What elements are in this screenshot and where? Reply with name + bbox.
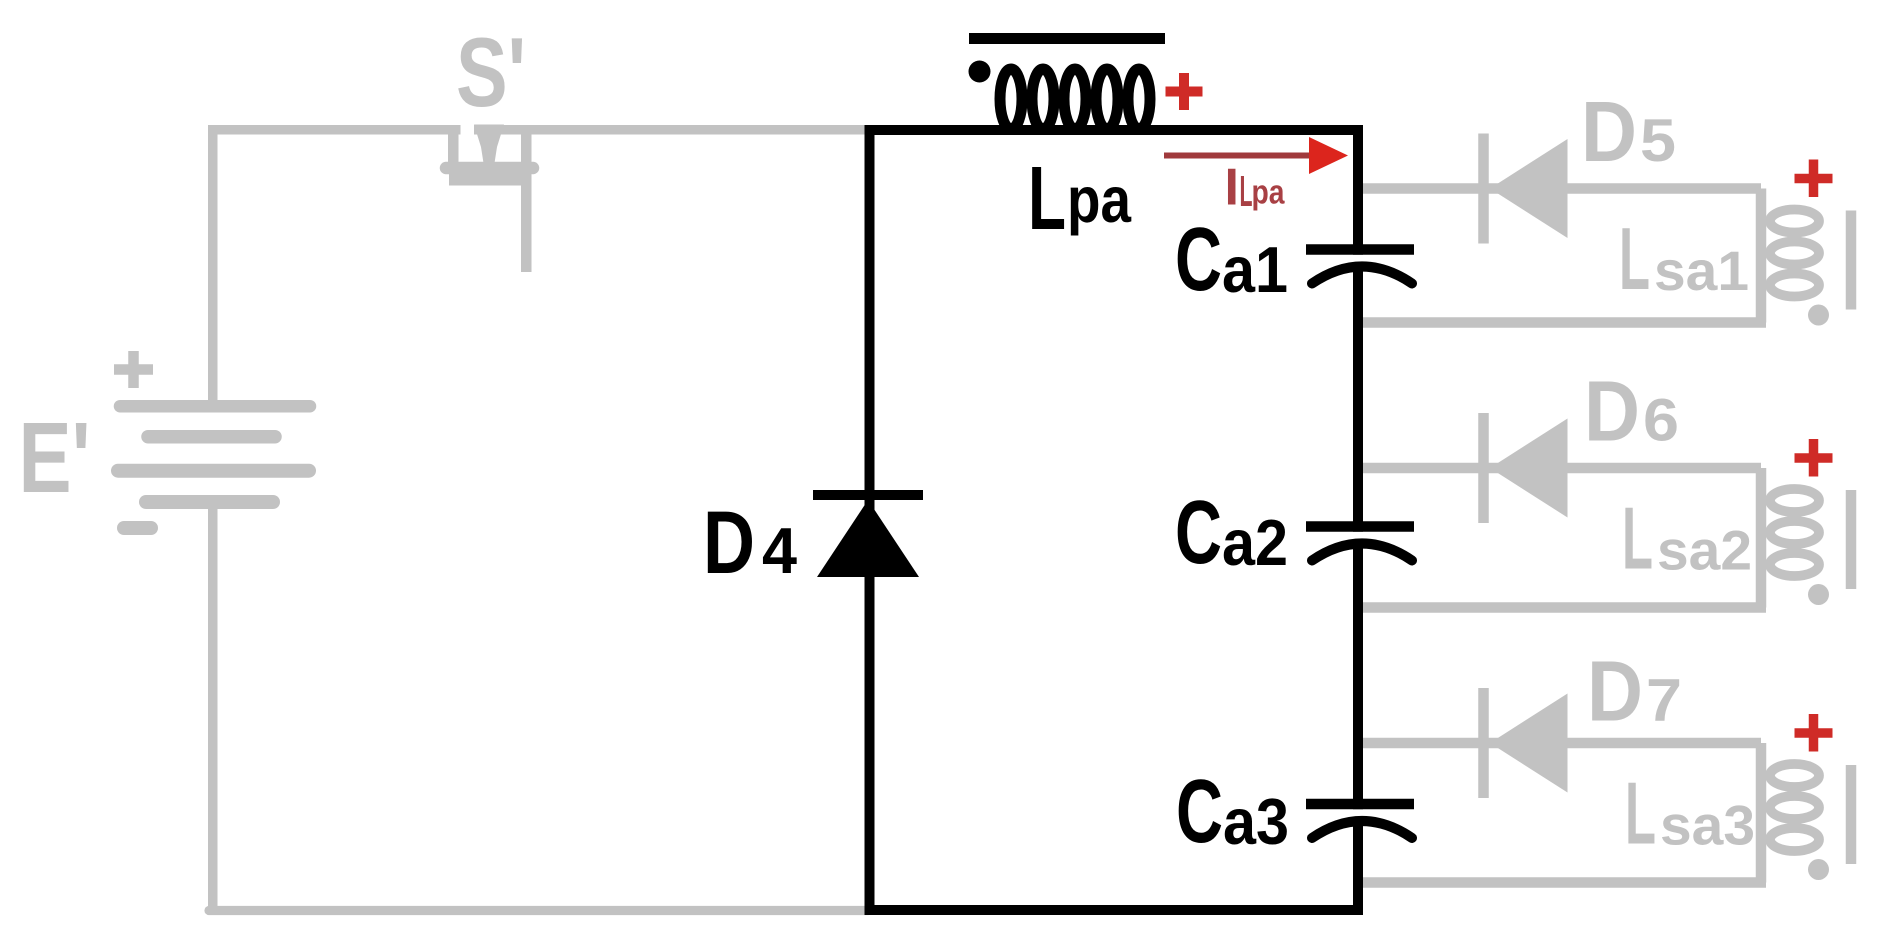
svg-text:L: L (1625, 764, 1656, 863)
svg-text:D: D (1584, 365, 1640, 460)
svg-text:sa3: sa3 (1660, 794, 1755, 857)
svg-text:C: C (1175, 210, 1222, 310)
svg-text:5: 5 (1640, 107, 1676, 174)
svg-text:D: D (1587, 645, 1643, 740)
svg-text:L: L (1622, 489, 1653, 588)
svg-text:D: D (1581, 85, 1637, 180)
svg-text:4: 4 (762, 514, 797, 587)
svg-text:a3: a3 (1223, 785, 1289, 858)
svg-text:pa: pa (1067, 163, 1132, 236)
svg-text:a1: a1 (1222, 233, 1288, 306)
svg-text:I: I (1225, 159, 1239, 217)
svg-text:6: 6 (1643, 387, 1679, 454)
svg-text:S': S' (456, 17, 526, 127)
svg-text:C: C (1176, 762, 1223, 862)
svg-text:pa: pa (1252, 174, 1286, 212)
svg-text:D: D (703, 492, 755, 592)
svg-text:E': E' (19, 402, 91, 514)
svg-text:a2: a2 (1222, 506, 1288, 579)
svg-text:L: L (1028, 149, 1066, 249)
svg-text:sa2: sa2 (1657, 519, 1752, 582)
svg-text:sa1: sa1 (1654, 239, 1749, 302)
svg-text:L: L (1619, 209, 1650, 308)
svg-text:C: C (1175, 483, 1222, 583)
svg-text:7: 7 (1646, 667, 1682, 734)
